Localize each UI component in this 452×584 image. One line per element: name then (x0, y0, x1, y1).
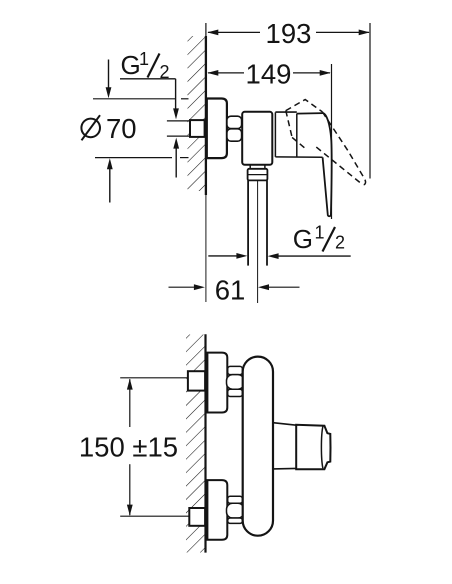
dimension 61 (169, 286, 196, 288)
upper hex nut (228, 366, 243, 374)
svg-text:G: G (121, 50, 141, 80)
handle neck (273, 423, 296, 426)
wall hatching (upper view) (188, 36, 206, 191)
wall hatching (lower view) (186, 335, 205, 553)
leader arrow up to inlet (175, 147, 177, 178)
svg-text:149: 149 (246, 59, 292, 90)
supply pipe stub behind wall (167, 120, 191, 122)
wall line (lower view) (204, 334, 206, 552)
extension line 149 (331, 64, 333, 219)
hex union nut (side view) (227, 116, 242, 128)
svg-text:61: 61 (215, 275, 246, 306)
upper escutcheon (207, 353, 227, 413)
svg-text:150 ±15: 150 ±15 (79, 432, 178, 463)
lever blade (solid position) (323, 113, 332, 216)
svg-text:1: 1 (315, 223, 325, 243)
svg-text:G: G (293, 224, 313, 254)
leader arrow down to inlet (175, 79, 177, 110)
svg-text:2: 2 (335, 233, 345, 253)
shower outlet pipe (247, 180, 249, 265)
extension line 193 (369, 23, 371, 179)
cartridge section (274, 112, 276, 157)
lever dashed alternate position (286, 100, 323, 112)
lower hex nut (228, 496, 243, 503)
inlet pipe through wall (190, 120, 205, 137)
mixer body (side view) (242, 112, 272, 165)
extension line lower inlet (120, 515, 189, 517)
lower escutcheon (207, 480, 227, 540)
wall line (upper view) (205, 23, 207, 36)
upper inlet pipe through wall (188, 371, 205, 390)
body capsule (243, 357, 273, 536)
dimension 150 +/-15 (129, 379, 131, 427)
dimension Ø70 (93, 98, 176, 100)
handle cap top (297, 112, 323, 115)
dimension 149 (208, 72, 244, 74)
svg-text:70: 70 (106, 113, 137, 144)
handle knob (296, 425, 330, 469)
handle cap boundary (296, 114, 298, 157)
escutcheon (side view) (207, 99, 227, 159)
outlet thread arrows (208, 255, 237, 257)
body outlet neck (249, 165, 251, 169)
svg-text:1: 1 (139, 49, 149, 69)
hose union ring (248, 169, 268, 181)
dimension 193 (208, 31, 260, 33)
lower inlet pipe through wall (189, 508, 205, 526)
extension line upper inlet (120, 377, 188, 379)
knob face arc (321, 426, 323, 468)
pipe centerline (257, 180, 259, 303)
svg-text:193: 193 (266, 18, 312, 49)
